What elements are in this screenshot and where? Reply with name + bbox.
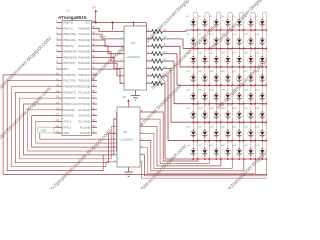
LED D2 (row 1, col 2): [198, 12, 210, 31]
watermark text (decorative): [0, 0, 283, 211]
LED D6 (row 1, col 6): [244, 12, 256, 31]
wire IC3 output 8 to matrix column 8: [140, 162, 267, 178]
wire IC3 output 4 to matrix column 4: [140, 133, 232, 168]
MCU pin 1 PB0(T0): [56, 21, 73, 25]
svg-text:PA2(AD2): PA2(AD2): [78, 38, 90, 42]
svg-text:PA0(AD0): PA0(AD0): [78, 26, 90, 30]
svg-text:PD6(WR): PD6(WR): [63, 108, 75, 112]
svg-text:PD0(RXD): PD0(RXD): [63, 73, 76, 77]
driver U3 ULN2803 body: [117, 107, 140, 167]
LED D32 (row 5, col 4): [221, 86, 233, 105]
MCU pin 28 PC7(A15): [78, 90, 97, 94]
LED D4 (row 1, col 4): [221, 12, 233, 31]
svg-text:PE0(ICP): PE0(ICP): [79, 73, 90, 77]
LED D40 (row 6, col 5): [233, 104, 245, 123]
MCU pin 5 PB4(SS): [56, 44, 73, 48]
node VCC junction: [95, 21, 97, 23]
LED D50 (row 8, col 1): [187, 141, 199, 160]
svg-text:PD4(XCK): PD4(XCK): [63, 96, 76, 100]
LED D29 (row 5, col 1): [187, 86, 199, 105]
MCU pin 17 PD7(RD): [56, 114, 74, 118]
wire PD3(INT1) to IC3 input 4: [15, 92, 117, 162]
svg-text:PB6(MISO): PB6(MISO): [63, 55, 77, 59]
wire PA0 to IC2 input 1: [96, 28, 124, 32]
driver U2 ULN2803 body: [124, 26, 147, 90]
LED D41 (row 6, col 6): [244, 104, 256, 123]
label ULN2803A (IC3): [120, 138, 133, 142]
wire R8 to matrix row 8: [163, 83, 166, 159]
MCU pin 24 PC3(A11): [79, 114, 97, 118]
MCU pin 29 PE2(OC1B): [76, 85, 97, 89]
svg-text:ULN2803A: ULN2803A: [120, 138, 133, 142]
svg-text:+5V: +5V: [122, 97, 127, 99]
svg-text:PA1(AD1): PA1(AD1): [78, 32, 90, 36]
wire PA4 to IC2 input 5: [96, 52, 124, 62]
MCU pin 27 PC6(A14): [78, 96, 97, 100]
net label HS-88: [99, 37, 106, 39]
wire R5 to matrix row 5: [163, 61, 175, 104]
LED D13 (row 2, col 6): [244, 30, 256, 49]
LED D31 (row 5, col 3): [210, 86, 222, 105]
IC3 input pin 3 number: [114, 125, 116, 127]
resistor R3: [147, 44, 168, 49]
LED D8 (row 2, col 1): [187, 30, 199, 49]
wire R2 to matrix row 2: [163, 39, 184, 49]
svg-text:+5V: +5V: [92, 8, 97, 10]
wire matrix row 3 line: [180, 66, 267, 68]
svg-text:GND: GND: [63, 131, 69, 135]
ground below IC2: [131, 90, 140, 100]
IC3 input pin 5 number: [114, 139, 116, 141]
MCU pin 31 PE0(ICP): [79, 73, 97, 77]
svg-text:PC7(A15): PC7(A15): [78, 90, 90, 94]
wire PA3 to IC2 input 4: [96, 46, 124, 54]
LED D33 (row 5, col 5): [233, 86, 245, 105]
resistor R7: [147, 73, 168, 78]
wire IC3 output 2 to matrix column 2: [140, 119, 209, 163]
wire IC3 output 1 to matrix column 1: [140, 112, 198, 161]
svg-text:PC0(A8): PC0(A8): [80, 131, 90, 135]
svg-text:IC3: IC3: [123, 130, 128, 134]
LED D10 (row 2, col 3): [210, 30, 222, 49]
MCU pin 19 XTAL1: [56, 125, 71, 129]
label ATmega8515: [58, 15, 87, 20]
svg-text:ATmega8515: ATmega8515: [58, 15, 87, 20]
wire +5V rail VCC to IC2: [96, 23, 147, 33]
wire PD6(WR) to IC3 input 1: [28, 110, 117, 151]
svg-text:IC1: IC1: [66, 10, 70, 13]
LED D37 (row 6, col 2): [198, 104, 210, 123]
MCU pin 36 PA3(AD3): [78, 44, 97, 48]
svg-text:PB7(SCK): PB7(SCK): [63, 61, 76, 65]
wire IC3 output 3 to matrix column 3: [140, 126, 221, 166]
wire XTAL1 bottom route to IC3: [40, 127, 117, 139]
LED D55 (row 8, col 6): [244, 141, 256, 160]
svg-text:PC3(A11): PC3(A11): [79, 114, 91, 118]
MCU pin 38 PA1(AD1): [78, 32, 97, 36]
svg-text:VCC: VCC: [85, 21, 91, 25]
IC3 output pin 12 number: [141, 153, 144, 155]
MCU pin 2 PB1(T1): [56, 26, 73, 30]
MCU U1 ATmega8515 body: [62, 21, 92, 136]
resistor R8: [147, 81, 168, 86]
MCU pin 6 PB5(MOSI): [56, 50, 77, 54]
wire PA1 to IC2 input 2: [96, 34, 124, 39]
LED D51 (row 8, col 2): [198, 141, 210, 160]
LED D21 (row 3, col 7): [256, 49, 268, 68]
svg-text:PC1(A9): PC1(A9): [80, 125, 90, 129]
LED D56 (row 8, col 7): [256, 141, 268, 160]
MCU pin 14 PD4(XCK): [56, 96, 76, 100]
svg-text:PA7(AD7): PA7(AD7): [78, 67, 90, 71]
wire XTAL2 bottom route to IC3: [36, 121, 117, 143]
LED D44 (row 7, col 2): [198, 123, 210, 142]
svg-text:PD5(OC1A): PD5(OC1A): [63, 102, 77, 106]
svg-text:PB1(T1): PB1(T1): [63, 26, 73, 30]
LED D30 (row 5, col 2): [198, 86, 210, 105]
svg-text:RST: RST: [63, 67, 69, 71]
LED D1 (row 1, col 1): [187, 12, 199, 31]
IC3 input pin 4 number: [114, 132, 116, 134]
LED D42 (row 6, col 7): [256, 104, 268, 123]
svg-text:PE2(OC1B): PE2(OC1B): [76, 85, 90, 89]
svg-text:XTAL2: XTAL2: [63, 119, 72, 123]
LED D24 (row 4, col 3): [210, 67, 222, 86]
LED D25 (row 4, col 4): [221, 67, 233, 86]
ground below IC3: [124, 167, 133, 177]
svg-text:PD3(INT1): PD3(INT1): [63, 90, 76, 94]
LED D27 (row 4, col 6): [244, 67, 256, 86]
LED D15 (row 3, col 1): [187, 49, 199, 68]
LED D35 (row 5, col 7): [256, 86, 268, 105]
LED D14 (row 2, col 7): [256, 30, 268, 49]
MCU pin 12 PD2(INT0): [56, 85, 76, 89]
MCU pin 25 PC4(A12): [78, 108, 97, 112]
LED D46 (row 7, col 4): [221, 123, 233, 142]
MCU pin 39 PA0(AD0): [78, 26, 97, 30]
wire R1 to matrix row 1: [163, 30, 187, 32]
wire matrix row 6 line: [171, 121, 267, 123]
resistor R2: [147, 36, 168, 41]
wire PA2 to IC2 input 3: [96, 40, 124, 47]
svg-text:PC5(A13): PC5(A13): [78, 102, 90, 106]
wire matrix row 1 line: [186, 29, 267, 31]
LED D49 (row 7, col 7): [256, 123, 268, 142]
IC3 output pin 15 number: [141, 132, 144, 134]
svg-text:PA5(AD5): PA5(AD5): [78, 55, 90, 59]
LED D16 (row 3, col 2): [198, 49, 210, 68]
LED D54 (row 8, col 5): [233, 141, 245, 160]
LED D34 (row 5, col 6): [244, 86, 256, 105]
wire R4 to matrix row 4: [163, 54, 178, 86]
label IC2: [131, 41, 136, 45]
resistor R4: [147, 51, 168, 56]
wire PA6 to IC2 input 7: [96, 63, 124, 76]
LED D22 (row 4, col 1): [187, 67, 199, 86]
svg-text:GND: GND: [41, 129, 47, 133]
LED D52 (row 8, col 3): [210, 141, 222, 160]
LED D39 (row 6, col 4): [221, 104, 233, 123]
LED D9 (row 2, col 2): [198, 30, 210, 49]
svg-text:PB2(AIN0): PB2(AIN0): [63, 32, 76, 36]
MCU pin 16 PD6(WR): [56, 108, 75, 112]
LED D7 (row 1, col 7): [256, 12, 268, 31]
svg-text:PD1(TXD): PD1(TXD): [63, 79, 75, 83]
MCU pin 11 PD1(TXD): [56, 79, 75, 83]
LED D26 (row 4, col 5): [233, 67, 245, 86]
LED D11 (row 2, col 4): [221, 30, 233, 49]
MCU pin 10 PD0(RXD): [56, 73, 76, 77]
IC3 input pin 8 number: [114, 160, 116, 162]
MCU pin 35 PA4(AD4): [78, 50, 97, 54]
LED D3 (row 1, col 3): [210, 12, 222, 31]
LED D28 (row 4, col 7): [256, 67, 268, 86]
IC3 output pin 11 number: [141, 160, 144, 162]
wire IC2 COM stub: [133, 22, 135, 26]
svg-text:IC2: IC2: [131, 41, 136, 45]
wire matrix row 5 line: [174, 103, 267, 105]
IC3 input pin 7 number: [114, 153, 116, 155]
LED D38 (row 6, col 3): [210, 104, 222, 123]
svg-text:ULN2803A: ULN2803A: [127, 55, 140, 59]
svg-text:XTAL1: XTAL1: [63, 125, 72, 129]
LED D5 (row 1, col 5): [233, 12, 245, 31]
MCU pin 33 PA6(AD6): [78, 61, 97, 65]
resistor R5: [147, 58, 168, 63]
MCU pin 40 VCC: [85, 21, 97, 25]
MCU pin 26 PC5(A13): [78, 102, 97, 106]
LED D12 (row 2, col 5): [233, 30, 245, 49]
net label GND at MCU pin 20: [38, 127, 62, 133]
power +5V symbol near MCU: [92, 8, 97, 23]
wire PD0 bottom pass line: [3, 75, 267, 175]
IC3 input pin 6 number: [114, 146, 116, 148]
svg-text:PE1(ALE): PE1(ALE): [78, 79, 90, 83]
wire PD4(XCK) to IC3 input 3: [19, 98, 117, 159]
LED D20 (row 3, col 6): [244, 49, 256, 68]
power +5V symbol above IC3: [122, 97, 130, 107]
MCU pin 37 PA2(AD2): [78, 38, 97, 42]
label ULN2803A (IC2): [127, 55, 140, 59]
svg-text:PA4(AD4): PA4(AD4): [78, 50, 90, 54]
LED D45 (row 7, col 3): [210, 123, 222, 142]
IC3 output pin 17 number: [141, 118, 144, 120]
wire matrix row 8 line: [165, 158, 267, 160]
LED D48 (row 7, col 6): [244, 123, 256, 142]
wire PA7 to IC2 input 8: [96, 69, 124, 84]
wire PD5(OC1A) to IC3 input 2: [24, 104, 118, 155]
svg-text:PC6(A14): PC6(A14): [78, 96, 90, 100]
MCU pin 9 RST: [56, 67, 69, 71]
resistor R1: [147, 29, 168, 34]
wire IC3 output 5 to matrix column 5: [140, 141, 244, 171]
IC3 output pin 16 number: [141, 125, 144, 127]
node rail tap: [111, 21, 113, 30]
LED D17 (row 3, col 3): [210, 49, 222, 68]
wire PD2(INT0) to IC3 input 8: [11, 87, 117, 167]
LED D36 (row 6, col 1): [187, 104, 199, 123]
label IC1: [66, 10, 70, 13]
MCU pin 3 PB2(AIN0): [56, 32, 76, 36]
wire R7 to matrix row 7: [163, 76, 169, 141]
wire R3 to matrix row 3: [163, 46, 181, 67]
IC3 input pin 1 number: [114, 111, 116, 113]
svg-text:PC2(A10): PC2(A10): [78, 119, 90, 123]
svg-text:PA6(AD6): PA6(AD6): [78, 61, 90, 65]
LED D43 (row 7, col 1): [187, 123, 199, 142]
MCU pin 23 PC2(A10): [78, 119, 97, 123]
svg-text:PA3(AD3): PA3(AD3): [78, 44, 90, 48]
MCU pin 32 PA7(AD7): [78, 67, 97, 71]
MCU pin 8 PB7(SCK): [56, 61, 75, 65]
svg-text:HS-88: HS-88: [99, 37, 106, 39]
wire R6 to matrix row 6: [163, 69, 172, 123]
svg-text:PC4(A12): PC4(A12): [78, 108, 90, 112]
wire matrix row 4 line: [177, 84, 267, 86]
svg-text:PD7(RD): PD7(RD): [63, 114, 74, 118]
svg-text:PB3(AIN1): PB3(AIN1): [63, 38, 76, 42]
svg-text:PB4(SS): PB4(SS): [63, 44, 74, 48]
svg-text:PD2(INT0): PD2(INT0): [63, 85, 76, 89]
MCU pin 7 PB6(MISO): [56, 55, 77, 59]
IC3 output pin 14 number: [141, 139, 144, 141]
wire matrix row 7 line: [168, 140, 267, 142]
wire PD1(TXD) to IC3 input 7: [7, 81, 117, 171]
wire matrix row 2 line: [183, 47, 267, 49]
resistor R6: [147, 66, 168, 71]
label IC3: [123, 130, 128, 134]
LED D23 (row 4, col 2): [198, 67, 210, 86]
MCU pin 13 PD3(INT1): [56, 90, 76, 94]
svg-text:PB0(T0): PB0(T0): [63, 21, 73, 25]
wire PA5 to IC2 input 6: [96, 57, 124, 69]
LED D53 (row 8, col 4): [221, 141, 233, 160]
MCU pin 20 GND: [56, 131, 69, 135]
LED D47 (row 7, col 5): [233, 123, 245, 142]
LED D18 (row 3, col 4): [221, 49, 233, 68]
MCU pin 4 PB3(AIN1): [56, 38, 76, 42]
MCU pin 30 PE1(ALE): [78, 79, 97, 83]
svg-text:PB5(MOSI): PB5(MOSI): [63, 50, 77, 54]
wire PD7(RD) bottom route to IC3: [32, 116, 117, 148]
MCU pin 15 PD5(OC1A): [56, 102, 77, 106]
IC3 output pin 18 number: [141, 111, 144, 113]
wire IC3 output 6 to matrix column 6: [140, 148, 255, 174]
wire IC3 output 7 to matrix column 7: [140, 155, 267, 176]
IC3 output pin 13 number: [141, 146, 144, 148]
IC3 input pin 2 number: [114, 118, 116, 120]
MCU pin 18 XTAL2: [56, 119, 71, 123]
MCU pin 22 PC1(A9): [80, 125, 97, 129]
LED D19 (row 3, col 5): [233, 49, 245, 68]
MCU pin 21 PC0(A8): [80, 131, 97, 135]
MCU pin 34 PA5(AD5): [78, 55, 97, 59]
